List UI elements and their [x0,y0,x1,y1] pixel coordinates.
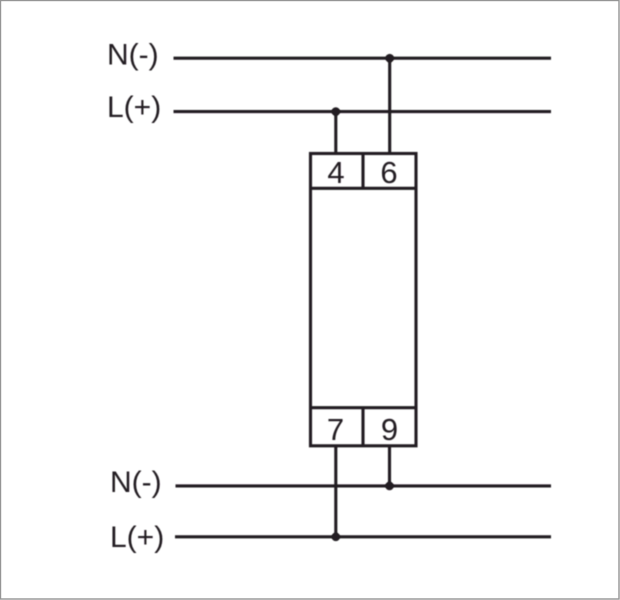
wire: bottom L(+) rail [175,535,551,538]
device body outline [311,154,417,446]
bottom terminal row top edge [311,406,417,409]
wire: top L(+) rail [174,110,552,113]
svg-text:9: 9 [381,412,398,447]
svg-text:6: 6 [380,155,397,190]
junction dot: L(+) to terminal 4 [332,107,341,116]
wire: N(-) to terminal 6 [388,58,391,153]
top terminal row bottom edge [311,187,417,190]
divider between terminals 4 and 6 [361,154,364,189]
junction dot: terminal 9 to bottom N(-) [385,482,394,491]
junction dot: terminal 7 to bottom L(+) [332,533,341,542]
svg-text:N(-): N(-) [107,39,159,72]
svg-text:4: 4 [327,155,344,190]
svg-text:N(-): N(-) [110,466,162,499]
wire: L(+) to terminal 4 [334,112,337,154]
wire: top N(-) rail [174,57,552,60]
svg-text:7: 7 [327,412,344,447]
svg-text:L(+): L(+) [107,91,161,124]
wire: terminal 7 to bottom L(+) [334,446,337,537]
wire: bottom N(-) rail [176,484,552,487]
divider between terminals 7 and 9 [361,408,364,446]
svg-text:L(+): L(+) [110,521,164,554]
junction dot: N(-) to terminal 6 [385,54,394,63]
wire: terminal 9 to bottom N(-) [388,446,391,486]
